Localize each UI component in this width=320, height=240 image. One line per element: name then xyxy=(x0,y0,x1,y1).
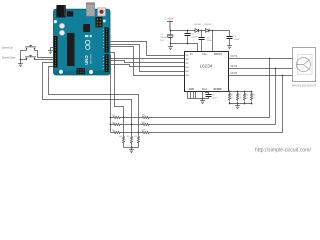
capacitor C1 xyxy=(167,31,173,44)
wire gnd rail to IC top xyxy=(171,44,198,52)
wire: SW2 right to Arduino pin xyxy=(35,59,54,61)
row1 resistor right R8 xyxy=(142,116,270,118)
svg-text:SENSE: SENSE xyxy=(214,88,223,91)
wire: SW1 right to Arduino pin xyxy=(35,51,54,58)
wire phase2 sense drop xyxy=(275,69,277,125)
top supply bus xyxy=(171,30,230,32)
svg-text:10k: 10k xyxy=(119,136,122,138)
wire: SW1 left to ground rail xyxy=(21,51,27,60)
mounting hole bottom-right xyxy=(89,70,93,74)
push button SW1 (Speed Up) xyxy=(25,46,36,51)
sense resistor R4 xyxy=(250,92,252,104)
capacitor C4 xyxy=(227,31,233,45)
USB connector xyxy=(86,3,95,17)
svg-text:10nF: 10nF xyxy=(207,40,213,42)
wire: Arduino GND stub left xyxy=(51,48,54,50)
svg-text:0.5: 0.5 xyxy=(246,97,249,99)
ground (sense) xyxy=(237,104,239,105)
ground (divider) xyxy=(131,148,133,149)
node D1/D2 junction xyxy=(201,30,203,32)
node C1 bottom xyxy=(170,43,172,45)
svg-text:1000uF: 1000uF xyxy=(160,37,168,39)
node neutral/row1 xyxy=(110,117,112,119)
row2 wire middle xyxy=(132,124,142,126)
wire IN3 with jog xyxy=(111,61,185,63)
svg-text:R2: R2 xyxy=(238,95,240,97)
svg-text:+12V: +12V xyxy=(167,16,174,20)
node R3 bottom xyxy=(244,103,246,105)
svg-text:Speed Down: Speed Down xyxy=(2,56,16,59)
svg-text:GND: GND xyxy=(189,88,195,91)
sense resistor R1 xyxy=(228,92,230,104)
svg-text:0.5: 0.5 xyxy=(238,97,241,99)
op IC body U1 xyxy=(185,52,229,92)
svg-text:Vref: Vref xyxy=(202,88,207,91)
node phase3 tap xyxy=(282,75,284,77)
svg-text:33k: 33k xyxy=(142,114,145,116)
ICSP header bottom xyxy=(77,68,85,74)
left pin header (power + analog) xyxy=(54,36,58,68)
svg-text:VBOOT: VBOOT xyxy=(214,54,223,56)
node VBOOT branch xyxy=(212,30,214,32)
node row1/col1 xyxy=(123,117,125,119)
row2 resistor right R9 xyxy=(142,123,276,125)
node phase2 tap xyxy=(275,68,277,70)
svg-text:BRUSHLESS MOTOR: BRUSHLESS MOTOR xyxy=(292,85,316,88)
push button SW2 (Speed Down) xyxy=(25,56,36,61)
node R4 bottom xyxy=(251,103,253,105)
ground (IC) xyxy=(202,99,204,100)
node row3/col3 xyxy=(138,132,140,134)
svg-text:33k: 33k xyxy=(112,130,115,132)
node R3 top xyxy=(244,91,246,93)
sense resistor R3 xyxy=(243,92,245,104)
node phase1 tap xyxy=(269,58,271,60)
svg-text:100nF: 100nF xyxy=(191,36,198,38)
wire A-in to col2 xyxy=(43,63,132,125)
svg-text:1N4148: 1N4148 xyxy=(204,24,212,26)
USB interface chip xyxy=(83,24,90,32)
Arduino infinity logo xyxy=(86,40,90,49)
node gnd bus xyxy=(202,98,204,100)
svg-text:1N4148: 1N4148 xyxy=(194,24,202,26)
svg-text:R1: R1 xyxy=(231,95,233,97)
row3 resistor right R10 xyxy=(142,131,283,133)
right pin header (digital) xyxy=(105,27,109,52)
wire: SW2 left xyxy=(21,59,27,61)
ground (C4) xyxy=(227,45,232,49)
node R2 top xyxy=(237,91,239,93)
mounting hole top-right xyxy=(103,20,106,23)
svg-text:OUT3: OUT3 xyxy=(231,72,238,75)
node R4 top xyxy=(251,91,253,93)
divider gnd bus xyxy=(124,147,139,149)
svg-text:UNO: UNO xyxy=(84,55,89,65)
svg-text:33k: 33k xyxy=(142,129,145,131)
diode D2 xyxy=(206,29,210,33)
node: buttons common xyxy=(20,59,22,61)
svg-text:R3: R3 xyxy=(246,95,248,97)
wire: down to ground xyxy=(20,60,22,63)
svg-text:25V: 25V xyxy=(160,40,164,42)
wire phase3 sense drop xyxy=(282,76,284,133)
svg-text:Vcp: Vcp xyxy=(202,54,207,56)
ATmega328 DIP chip xyxy=(67,33,75,66)
wire IN2 straight xyxy=(111,58,185,60)
Arduino UNO board body xyxy=(54,9,111,75)
ground (Arduino left) xyxy=(48,50,53,54)
sense resistor R2 xyxy=(236,92,238,104)
svg-text:33k: 33k xyxy=(112,123,115,125)
svg-text:ARDUINO: ARDUINO xyxy=(90,53,93,63)
svg-text:33k: 33k xyxy=(112,115,115,117)
svg-text:10nF: 10nF xyxy=(212,97,218,99)
svg-text:10k: 10k xyxy=(127,136,130,138)
node R2 bottom xyxy=(237,103,239,105)
wire IN1: exit to vertical then IC xyxy=(111,42,185,56)
wire phase1 sense drop xyxy=(269,59,271,118)
electrolytic capacitor can 2 xyxy=(59,30,64,35)
svg-text:33k: 33k xyxy=(142,122,145,124)
barrel jack (power) xyxy=(56,5,66,17)
node C2 bottom xyxy=(187,43,189,45)
wire EN3 xyxy=(111,47,185,76)
svg-text:Speed Up: Speed Up xyxy=(2,46,13,49)
capacitor C3 (charge pump) xyxy=(199,31,205,52)
wire OUT3 xyxy=(229,75,293,77)
node R1 top xyxy=(229,91,231,93)
wire to divider col1 xyxy=(111,53,124,118)
wire OUT1 xyxy=(229,58,293,60)
col3 lower resistor R13 xyxy=(137,133,139,148)
2x3 pin header near reset xyxy=(95,17,102,27)
mounting hole bottom-left xyxy=(59,70,63,74)
sense bottom bus xyxy=(230,103,252,105)
wire A-in to col3 xyxy=(49,67,139,133)
GND pin stubs xyxy=(188,92,203,99)
node supply/C1 xyxy=(170,30,172,32)
wire EN2 xyxy=(111,45,185,72)
svg-text:http://simple-circuit.com/: http://simple-circuit.com/ xyxy=(255,148,312,154)
row1 resistor left R5 xyxy=(111,116,124,118)
svg-text:OUT1: OUT1 xyxy=(231,55,238,58)
row1 wire middle xyxy=(124,117,142,119)
node row2/col2 xyxy=(131,124,133,126)
mounting hole top-left xyxy=(54,20,57,23)
svg-text:220nF: 220nF xyxy=(233,39,240,41)
ground (buttons) xyxy=(18,63,23,67)
wire to neutral bus xyxy=(110,55,112,133)
node neutral/row2 xyxy=(110,124,112,126)
col1 lower resistor R11 xyxy=(122,118,124,148)
svg-text:L6234: L6234 xyxy=(200,64,213,69)
row2 resistor left R6 xyxy=(111,123,132,125)
capacitor C5 on Vref xyxy=(206,92,212,99)
node divider gnd xyxy=(131,147,133,149)
node C2 top xyxy=(187,30,189,32)
row3 wire middle xyxy=(139,132,142,134)
electrolytic capacitor can 1 xyxy=(59,23,64,28)
col2 lower resistor R12 xyxy=(130,125,132,148)
SENSE wire xyxy=(221,91,252,93)
ground (C1) xyxy=(170,44,172,46)
row3 resistor left R7 xyxy=(111,131,139,133)
svg-text:0.5: 0.5 xyxy=(231,97,234,99)
svg-text:0.5: 0.5 xyxy=(253,97,256,99)
wire VBOOT to IC xyxy=(212,31,214,52)
+12V power symbol xyxy=(167,16,174,30)
svg-text:R4: R4 xyxy=(253,95,255,97)
wire OUT2 xyxy=(229,68,293,70)
diode D1 xyxy=(195,29,199,33)
node R1 bottom xyxy=(229,103,231,105)
reset button xyxy=(98,8,106,16)
silkscreen pin marks right xyxy=(103,29,104,69)
motor M1 brushless xyxy=(293,48,316,82)
capacitor C2 xyxy=(185,31,191,44)
voltage regulator xyxy=(67,11,73,16)
svg-text:OUT2: OUT2 xyxy=(231,65,238,68)
bottom gnd bus xyxy=(188,98,209,100)
wire EN1 with jog xyxy=(111,65,185,67)
svg-text:10k: 10k xyxy=(134,136,137,138)
